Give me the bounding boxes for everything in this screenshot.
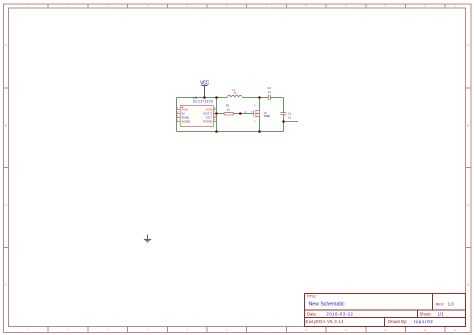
svg-text:2018-03-22: 2018-03-22 — [326, 312, 353, 317]
svg-text:topor02: topor02 — [414, 319, 433, 324]
svg-text:D: D — [5, 283, 8, 287]
U1 pin numbers — [177, 107, 216, 122]
svg-text:D: D — [467, 283, 470, 287]
svg-text:TITLE:: TITLE: — [307, 295, 317, 299]
svg-text:REV:: REV: — [436, 302, 445, 306]
junction node 2 at R1 right — [239, 112, 242, 115]
U1 pin names — [182, 108, 213, 124]
svg-text:11: 11 — [424, 328, 427, 332]
junction U1 PGND stub on bottom rail — [215, 130, 218, 133]
svg-text:1.0: 1.0 — [448, 301, 455, 306]
svg-text:8: 8 — [305, 328, 307, 332]
wire left vertical to U1 input pins — [176, 98, 178, 132]
junction Q1 drain on top rail — [258, 96, 261, 99]
svg-text:EasyEDA V5.3.14: EasyEDA V5.3.14 — [306, 319, 345, 324]
wire top rail L1 to C2 segment — [242, 97, 268, 99]
svg-text:10: 10 — [384, 4, 387, 8]
svg-text:1k: 1k — [227, 107, 231, 111]
junction U1 VDD stub on top rail — [215, 96, 218, 99]
capacitor C2 plates — [268, 95, 270, 100]
wire output stub right of C1 junction — [284, 121, 298, 123]
wire bottom ground rail — [177, 131, 284, 133]
svg-text:1u: 1u — [288, 115, 292, 119]
wire U1 OUT to R1 — [217, 113, 224, 115]
wire Q1 source to bottom rail — [259, 117, 261, 132]
svg-text:S: S — [254, 121, 256, 123]
svg-text:Date:: Date: — [307, 312, 317, 317]
svg-text:PGND: PGND — [203, 120, 213, 124]
junction VCC stem on top rail — [203, 96, 206, 99]
svg-text:6: 6 — [226, 328, 228, 332]
svg-text:10: 10 — [384, 328, 387, 332]
junction C1 bottom with output stub — [282, 120, 285, 123]
U1 right pins (VDD, OUT, OUT, PGND) — [213, 110, 216, 122]
svg-text:Sheet:: Sheet: — [420, 312, 432, 317]
junction Q1 source on bottom rail — [258, 130, 261, 133]
svg-text:9: 9 — [345, 328, 347, 332]
svg-text:4: 4 — [147, 328, 149, 332]
wire right vertical below C1 — [283, 115, 285, 132]
svg-text:1u: 1u — [233, 91, 237, 95]
svg-text:A: A — [5, 43, 7, 47]
wire top rail C2 to right corner segment — [271, 97, 284, 99]
capacitor C1 plates — [280, 113, 286, 115]
IC U1 UCC37322D body — [180, 106, 213, 127]
ground — [144, 235, 151, 242]
svg-text:12: 12 — [454, 328, 457, 332]
svg-text:D: D — [254, 105, 256, 107]
wire Q1 drain to top rail — [259, 98, 261, 111]
svg-text:A: A — [467, 43, 469, 47]
wire U1 VDD-OUT-PGND tie vertical — [216, 98, 218, 132]
svg-text:12: 12 — [454, 4, 457, 8]
svg-text:2: 2 — [67, 328, 69, 332]
transistor Q1 2N7000 symbol — [254, 110, 260, 118]
inductor L1 — [227, 96, 242, 98]
svg-text:3: 3 — [107, 328, 109, 332]
power symbol VCC — [200, 81, 210, 98]
svg-text:B: B — [467, 124, 469, 128]
svg-text:New Schematic: New Schematic — [309, 301, 345, 307]
junction U1 OUT pins tie — [215, 112, 218, 115]
svg-text:1: 1 — [27, 328, 29, 332]
svg-text:C: C — [467, 203, 470, 207]
svg-text:7: 7 — [266, 328, 268, 332]
svg-text:AGND: AGND — [182, 120, 192, 124]
svg-text:1u: 1u — [268, 90, 272, 94]
wire right vertical above C1 — [283, 98, 285, 113]
resistor R1 — [224, 112, 234, 115]
svg-text:2N7000: 2N7000 — [264, 115, 271, 118]
svg-text:UCC37322D: UCC37322D — [193, 99, 214, 103]
svg-text:G: G — [251, 111, 253, 113]
svg-text:C: C — [5, 203, 8, 207]
wire VCC top rail left segment — [177, 97, 228, 99]
wire R1 to Q1 gate — [234, 113, 254, 115]
svg-text:1/1: 1/1 — [438, 312, 445, 317]
svg-text:11: 11 — [424, 4, 427, 8]
svg-text:Drawn By:: Drawn By: — [388, 319, 407, 324]
svg-text:5: 5 — [186, 328, 188, 332]
U1 left pins (VDD, IN, ENBL, AGND) — [176, 110, 180, 122]
svg-text:B: B — [5, 124, 7, 128]
Q1 pin letters D G S — [251, 105, 257, 123]
